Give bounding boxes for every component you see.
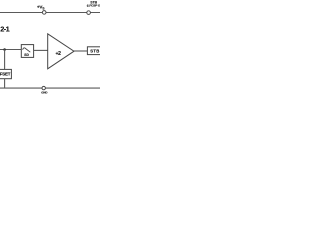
svg-text:STB: STB [90,48,99,53]
svg-text:(LFCSP ONLY): (LFCSP ONLY) [87,4,100,8]
node STB output box [87,47,109,55]
wire GND bottom rail [0,87,100,89]
node GND terminal [42,86,45,89]
wire SD box to amp [34,49,48,51]
node FSET box [0,69,11,78]
node +Vs terminal [42,11,46,15]
wire input left [0,49,21,51]
svg-text:2-1: 2-1 [0,24,9,33]
wire amp to STB box [74,50,87,52]
op-amp A1 gain divide-by-2 [48,34,74,69]
svg-text:GND: GND [41,90,47,94]
svg-text:÷2: ÷2 [56,51,62,57]
node junction [3,48,6,51]
wire +Vs top rail [0,12,100,14]
svg-text:+VS: +VS [37,5,44,11]
svg-text:SD: SD [24,53,29,57]
svg-text:FSET: FSET [0,72,11,77]
node STB terminal [87,11,91,15]
wire junction to FSET box [4,50,6,70]
wire FSET box to GND rail [4,79,6,88]
filter U1 SD box [21,45,33,58]
